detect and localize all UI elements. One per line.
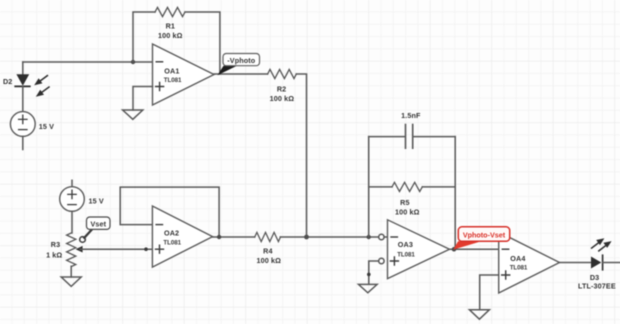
voltage source V2 15V	[60, 180, 85, 211]
photodiode D2	[15, 74, 30, 86]
terminal ring: OA3 non-inverting input	[379, 258, 384, 263]
svg-text:1 kΩ: 1 kΩ	[46, 250, 62, 259]
svg-text:TL081: TL081	[397, 251, 415, 258]
LED D3	[591, 255, 603, 270]
svg-text:-Vphoto: -Vphoto	[227, 56, 255, 65]
ground (OA3 non-inverting)	[359, 284, 378, 292]
resistor R5	[392, 182, 422, 191]
svg-text:TL081: TL081	[510, 265, 528, 272]
wire: R1 to OA1 output riser	[185, 12, 220, 74]
wire: OA1 non-inverting input to ground	[133, 87, 153, 111]
node: dot on OA3 ground wire	[367, 273, 371, 277]
node: wiper wire dot	[144, 247, 148, 251]
photodiode incident light arrow (upper)	[34, 76, 47, 86]
svg-text:OA4: OA4	[510, 254, 525, 263]
wire: OA4 non-inverting input to ground	[480, 275, 499, 310]
svg-text:Vset: Vset	[90, 220, 106, 229]
wire: OA3 output to OA4 inverting input	[450, 248, 499, 250]
node: OA3 output junction	[452, 247, 457, 252]
capacitor C1 1.5nF	[406, 125, 413, 149]
terminal ring: OA3 inverting input	[379, 234, 384, 239]
wire: OA2 output to R4	[213, 236, 255, 238]
node: OA2 output feedback tap	[217, 235, 221, 239]
node label -Vphoto	[223, 54, 260, 66]
wire: feedback left riser to R1	[133, 12, 155, 62]
wire: R4 to OA3 inverting input	[280, 236, 378, 238]
label 15 V (V1)	[39, 122, 54, 131]
svg-text:R1: R1	[166, 21, 175, 30]
LED emission arrow (upper)	[592, 238, 605, 248]
callout pointer for -Vphoto	[218, 66, 238, 75]
wire: V2 to potentiometer R3	[71, 211, 73, 233]
node label Vphoto-Vset (red)	[458, 227, 509, 242]
wire: OA3 non-inverting input to ground	[369, 261, 379, 284]
svg-text:100 kΩ: 100 kΩ	[158, 31, 183, 40]
potentiometer R3 1k	[67, 233, 76, 267]
node A: OA1 inverting input junction	[131, 60, 135, 64]
svg-text:R3: R3	[51, 240, 60, 249]
svg-text:15 V: 15 V	[89, 196, 104, 205]
svg-text:100 kΩ: 100 kΩ	[257, 256, 282, 265]
wire: top node down to photodiode anode	[22, 62, 24, 75]
svg-text:OA3: OA3	[398, 240, 413, 249]
wire: LED cathode to right edge	[603, 262, 620, 264]
wire: photodiode node to OA1 inverting input	[23, 61, 153, 63]
wire: R5 right lead	[422, 186, 455, 188]
ground (R3)	[61, 277, 81, 286]
op-amp OA2 TL081	[152, 206, 212, 267]
ground (OA4 non-inverting)	[469, 310, 489, 320]
svg-text:15 V: 15 V	[39, 122, 54, 131]
svg-text:TL081: TL081	[164, 77, 182, 84]
wire: capacitor right lead	[413, 136, 455, 138]
label 15 V (V2)	[89, 196, 104, 205]
svg-text:100 kΩ: 100 kΩ	[395, 207, 420, 216]
wire: OA3 feedback right riser to output	[454, 137, 455, 250]
svg-text:OA2: OA2	[164, 229, 179, 238]
wire: photodiode cathode to 15V source V1	[22, 86, 24, 111]
svg-text:TL081: TL081	[163, 239, 181, 246]
voltage source V1 15V	[10, 112, 35, 137]
op-amp OA4 TL081	[499, 232, 560, 293]
node: OA3 feedback junction	[367, 235, 371, 239]
svg-text:Vphoto-Vset: Vphoto-Vset	[463, 230, 506, 239]
op-amp OA1 TL081	[153, 44, 215, 105]
node label Vset	[87, 217, 111, 229]
resistor R2	[268, 69, 297, 78]
label D2	[3, 77, 12, 86]
op-amp OA3 TL081	[388, 220, 450, 279]
wire: R3 bottom to ground	[70, 266, 72, 277]
label R1 100 kOhm	[158, 21, 183, 40]
svg-text:D2: D2	[3, 77, 12, 86]
svg-text:R4: R4	[263, 247, 272, 256]
wiper arrow of R3	[76, 246, 83, 253]
wire: capacitor left lead	[369, 136, 405, 138]
svg-text:R2: R2	[277, 84, 286, 93]
red callout pointer for Vphoto-Vset	[453, 241, 481, 249]
node B: summing junction R2/R4	[304, 235, 309, 240]
label R2 100 kOhm	[270, 84, 295, 103]
svg-text:R5: R5	[400, 198, 409, 207]
label 1.5nF	[401, 111, 421, 120]
photodiode incident light arrow (lower)	[36, 87, 49, 97]
wire: wiper to OA2 non-inverting input	[80, 248, 152, 250]
label R5 100 kOhm	[395, 198, 420, 216]
svg-text:LTL-307EE: LTL-307EE	[578, 281, 616, 290]
wire: V1 bottom stub	[22, 136, 24, 149]
svg-text:100 kΩ: 100 kΩ	[270, 94, 295, 103]
svg-text:OA1: OA1	[164, 66, 179, 75]
wire: OA3 feedback left riser	[368, 137, 370, 237]
wire: OA3 inverting ring stub	[384, 236, 387, 238]
wire: OA2 feedback loop	[120, 187, 219, 237]
wire: OA1 output to R2	[214, 73, 268, 75]
resistor R1	[155, 7, 185, 16]
label R3 1 kOhm	[46, 240, 62, 260]
ground (OA1 non-inverting)	[123, 110, 143, 119]
label D3 LTL-307EE	[578, 273, 616, 290]
wire: OA4 output to LED D3	[560, 262, 592, 264]
LED emission arrow (lower)	[599, 241, 612, 251]
svg-text:1.5nF: 1.5nF	[401, 111, 421, 120]
resistor R4	[255, 232, 281, 241]
leader line for Vset label	[84, 230, 92, 238]
label R4 100 kOhm	[257, 247, 282, 265]
wire: R2 down to summing junction	[296, 74, 306, 237]
wiper terminal ring	[80, 237, 86, 243]
wire: R5 left lead	[369, 186, 392, 188]
